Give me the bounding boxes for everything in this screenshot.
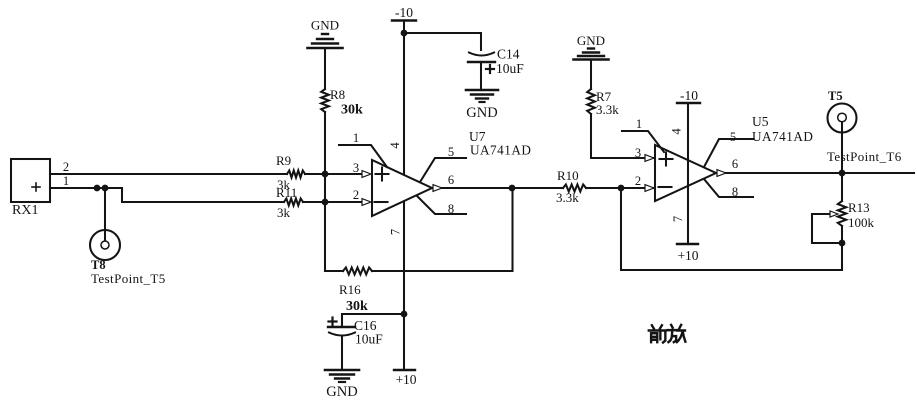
wire feedback bottom <box>325 270 343 272</box>
power -10 (above U5) <box>677 88 700 103</box>
svg-text:4: 4 <box>670 128 684 135</box>
svg-text:C14: C14 <box>497 47 520 62</box>
svg-text:R13: R13 <box>848 200 870 215</box>
svg-text:1: 1 <box>353 131 359 145</box>
wire C16 to ground <box>341 337 343 370</box>
power -10 (top) <box>392 5 416 21</box>
pin 2 input arrow <box>645 185 654 192</box>
wire R9 to pin3 <box>305 173 362 175</box>
svg-text:3: 3 <box>353 161 359 175</box>
node junction -10/C14 <box>401 30 408 37</box>
svg-text:2: 2 <box>63 160 69 174</box>
svg-text:8: 8 <box>732 185 738 199</box>
svg-text:1: 1 <box>63 174 69 188</box>
wire C14 to ground <box>480 62 482 90</box>
capacitor C16 <box>328 318 383 347</box>
wire to C16 <box>342 314 404 326</box>
svg-text:RX1: RX1 <box>12 203 38 218</box>
svg-text:TestPoint_T5: TestPoint_T5 <box>91 271 166 286</box>
svg-text:5: 5 <box>730 130 736 144</box>
wire node to node (vertical between input nodes) <box>324 174 326 202</box>
svg-text:6: 6 <box>448 173 454 187</box>
svg-text:6: 6 <box>732 157 738 171</box>
pin 8 stub <box>417 196 466 216</box>
wire R11 to pin2 <box>303 201 362 203</box>
wire U7 output <box>442 187 563 189</box>
wire node down to feedback <box>324 202 326 271</box>
node junction pin2/feedback <box>618 185 625 192</box>
ground GND (under C14) <box>466 90 498 121</box>
svg-text:R8: R8 <box>330 87 345 102</box>
pin 2 input arrow <box>362 199 371 206</box>
wire GND to R8 <box>324 48 326 89</box>
resistor R7 <box>587 89 619 117</box>
svg-text:2: 2 <box>353 188 359 202</box>
wire T5 to output <box>841 132 843 173</box>
svg-text:GND: GND <box>326 384 357 400</box>
pin 8 stub <box>704 179 753 199</box>
svg-text:UA741AD: UA741AD <box>752 129 813 144</box>
svg-text:10uF: 10uF <box>496 61 524 76</box>
pin 5 stub <box>420 145 466 182</box>
wire R10 to U5 pin2 <box>586 187 654 189</box>
connector RX1 <box>11 159 50 218</box>
svg-text:30k: 30k <box>346 299 368 314</box>
svg-text:T5: T5 <box>828 89 843 103</box>
wire R7 to U5 pin3 <box>591 114 654 158</box>
resistor R10 <box>556 168 586 205</box>
resistor R11 <box>276 185 303 220</box>
svg-text:7: 7 <box>389 229 403 235</box>
testpoint T5 <box>827 89 902 164</box>
wire R13 bottom <box>841 226 843 243</box>
svg-text:10uF: 10uF <box>355 332 383 347</box>
svg-text:3k: 3k <box>277 205 291 220</box>
svg-text:-10: -10 <box>680 88 698 103</box>
ground GND (top left, above R8) <box>308 18 343 49</box>
svg-text:4: 4 <box>388 142 402 149</box>
svg-text:GND: GND <box>577 33 605 48</box>
testpoint T8 <box>90 230 166 286</box>
svg-text:3.3k: 3.3k <box>596 102 619 117</box>
svg-text:+10: +10 <box>677 248 698 263</box>
pin 1 stub <box>339 131 387 167</box>
wire R8 to +input node <box>324 112 326 174</box>
pin 6 output arrow <box>717 170 726 177</box>
svg-text:TestPoint_T6: TestPoint_T6 <box>827 149 902 164</box>
resistor R9 <box>276 153 305 192</box>
capacitor C14 <box>468 47 524 77</box>
wire RX1 pin1 <box>50 187 122 189</box>
wire R16 to right vertical <box>372 270 513 272</box>
node junction output/T5/R13 <box>839 170 846 177</box>
svg-text:U5: U5 <box>752 114 769 129</box>
svg-text:GND: GND <box>311 18 339 33</box>
svg-text:1: 1 <box>636 117 642 131</box>
svg-text:R10: R10 <box>557 168 579 183</box>
wire wiper loop <box>812 214 842 243</box>
pin 3 input arrow <box>645 155 654 162</box>
svg-text:GND: GND <box>466 105 497 121</box>
wire to C14 <box>404 33 481 50</box>
wire to testpoint T8 <box>104 188 106 241</box>
node junction R13 bottom/wiper <box>839 240 846 247</box>
wire U5 output <box>726 172 914 174</box>
svg-text:8: 8 <box>448 202 454 216</box>
pin 1 stub <box>622 117 664 152</box>
pin 3 input arrow <box>362 171 371 178</box>
wire -10 rail vertical through U7 <box>403 21 405 371</box>
svg-text:R11: R11 <box>276 185 297 200</box>
node junction output/feedback <box>509 185 516 192</box>
resistor R13 (potentiometer) <box>812 200 875 230</box>
ground GND (under C16) <box>325 370 359 400</box>
svg-text:100k: 100k <box>848 215 875 230</box>
svg-text:3: 3 <box>635 146 641 160</box>
wire U5 feedback down/right <box>621 188 842 270</box>
pin 6 output arrow <box>433 185 442 192</box>
node junction on pin3 wire <box>322 171 329 178</box>
power +10 (bottom) <box>394 370 417 387</box>
svg-text:UA741AD: UA741AD <box>470 143 531 158</box>
label 前放 (preamp) <box>649 325 686 343</box>
wire pin1 jog down <box>122 188 284 202</box>
op-amp U5 <box>655 114 813 201</box>
svg-text:T8: T8 <box>91 258 106 272</box>
node junction +10 rail / C16 <box>401 311 408 318</box>
op-amp U7 <box>372 129 531 216</box>
svg-text:2: 2 <box>635 174 641 188</box>
svg-text:3.3k: 3.3k <box>556 190 579 205</box>
wire output node to R13 <box>841 173 843 201</box>
wire feedback right vertical <box>511 188 513 271</box>
resistor R8 <box>321 87 363 118</box>
resistor R16 <box>339 268 372 315</box>
svg-text:R16: R16 <box>339 282 361 297</box>
node junction on pin2 wire <box>322 199 329 206</box>
svg-text:5: 5 <box>448 145 454 159</box>
power +10 (below U5) <box>677 244 699 263</box>
ground GND (above R7) <box>574 33 609 60</box>
wire RX1 pin2 <box>50 173 287 175</box>
svg-text:R9: R9 <box>276 153 291 168</box>
svg-text:+10: +10 <box>395 372 416 387</box>
wire GND to R7 <box>590 60 592 90</box>
svg-text:7: 7 <box>671 216 685 222</box>
junction dots on pin1 wire <box>94 185 101 192</box>
pin 5 stub <box>704 130 753 167</box>
svg-text:-10: -10 <box>395 5 413 20</box>
svg-text:30k: 30k <box>341 103 363 118</box>
wire -10 through U5 to +10 <box>687 103 689 244</box>
